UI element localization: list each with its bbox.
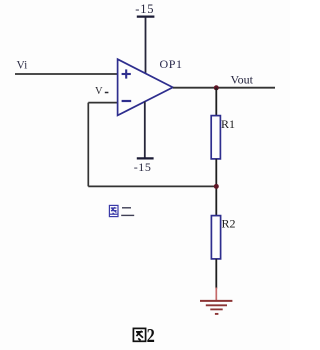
svg-text:OP1: OP1 <box>160 57 183 71</box>
wire: bottom supply from op-amp <box>144 102 146 159</box>
svg-text:-15: -15 <box>134 160 152 174</box>
wire: feedback vertical <box>87 103 89 187</box>
resistor R2 <box>211 216 220 259</box>
op-amp U1 (OP1) triangle <box>118 59 173 115</box>
svg-text:Vout: Vout <box>231 73 254 87</box>
caption 图二 : glyph 二 <box>121 208 134 216</box>
power rail bar (top) <box>137 16 155 18</box>
node: output junction <box>214 85 219 90</box>
node: feedback junction <box>214 184 219 189</box>
wire: R1 to R2 <box>215 159 217 216</box>
power rail bar (bottom) <box>137 157 154 159</box>
wire: inverting input <box>88 102 117 104</box>
wire: op-amp output to Vout <box>173 87 275 89</box>
wire: junction to R1 <box>215 88 217 116</box>
svg-text:2: 2 <box>147 325 155 347</box>
wire: R2 to ground <box>215 259 217 289</box>
wire: Vi to non-inverting input <box>15 73 118 75</box>
caption 图二 (blue) : glyph 图 <box>109 205 118 216</box>
ground (earth) <box>200 301 232 314</box>
op-amp minus input mark <box>122 100 132 102</box>
wire: feedback horizontal <box>88 185 216 187</box>
svg-text:R2: R2 <box>222 217 236 231</box>
op-amp plus input mark <box>122 69 131 78</box>
wire: red segment into ground <box>215 288 217 301</box>
svg-text:V: V <box>95 86 103 97</box>
caption 图2 (black) : glyph 图 <box>133 328 145 341</box>
resistor R1 <box>211 116 220 159</box>
svg-text:R1: R1 <box>221 117 235 131</box>
svg-text:-15: -15 <box>135 2 154 16</box>
svg-text:Vi: Vi <box>17 60 28 72</box>
wire: top supply to op-amp <box>145 17 147 74</box>
